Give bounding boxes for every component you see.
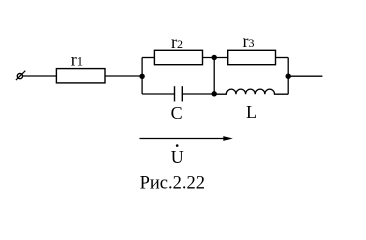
capacitor C bbox=[175, 86, 183, 101]
voltage arrow U bbox=[140, 138, 225, 140]
resistor r2 bbox=[154, 50, 202, 64]
svg-text:C: C bbox=[171, 103, 183, 123]
wire: right vertical of r3/L group bbox=[287, 58, 289, 95]
input terminal (circle with slash) bbox=[16, 71, 25, 80]
node D junction dot bbox=[286, 74, 291, 79]
resistor r1 bbox=[56, 69, 105, 83]
node A junction dot bbox=[139, 74, 144, 79]
wire: output bbox=[288, 75, 322, 77]
node B junction dot bbox=[212, 55, 217, 60]
wire: middle vertical between groups bbox=[213, 58, 215, 95]
inductor L bbox=[214, 89, 288, 94]
node C junction dot bbox=[212, 91, 217, 96]
wire: r1 to node A bbox=[105, 75, 142, 77]
wire: capacitor to node C bbox=[182, 93, 214, 95]
wire: r3 to right vertical bbox=[276, 57, 289, 59]
svg-text:Рис.2.22: Рис.2.22 bbox=[140, 173, 205, 193]
wire: top branch to r2 bbox=[142, 57, 154, 59]
svg-text:L: L bbox=[246, 102, 257, 122]
resistor r3 bbox=[228, 50, 276, 64]
svg-text:U: U bbox=[171, 147, 184, 167]
wire: left vertical of r2/C group bbox=[141, 58, 143, 95]
wire: bottom branch to capacitor bbox=[142, 93, 174, 95]
wire: r2 to r3 top branch bbox=[203, 57, 228, 59]
wire: terminal to r1 bbox=[23, 75, 57, 77]
